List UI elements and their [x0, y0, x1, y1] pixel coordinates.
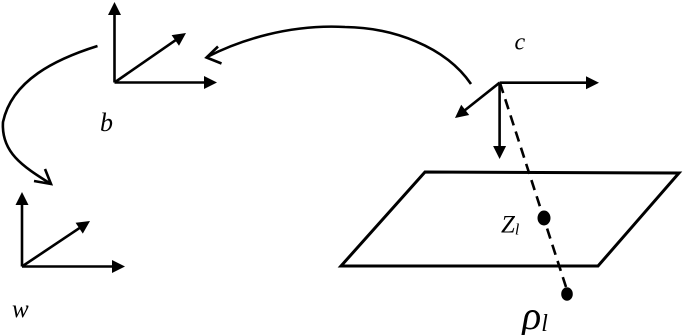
frame c axis down [493, 83, 506, 159]
svg-text:ρl: ρl [520, 293, 548, 335]
svg-text:w: w [12, 296, 29, 323]
dashed ray from c through plane [500, 83, 566, 287]
point rho_l dot [561, 287, 573, 301]
frame w axis x (right) [22, 260, 125, 273]
plane (parallelogram) [341, 172, 679, 266]
svg-text:c: c [515, 30, 526, 56]
frame w axis diagonal [22, 221, 90, 267]
frame b axis y (up) [108, 2, 121, 83]
frame c axis down-left [455, 83, 500, 118]
point Z_l dot [538, 211, 551, 226]
curved arrow b to w [3, 46, 98, 184]
svg-text:Zl: Zl [501, 212, 520, 239]
frame c axis x (right) [500, 76, 599, 89]
svg-text:b: b [100, 108, 113, 137]
frame b axis x (right) [115, 76, 218, 89]
frame w axis y (up) [16, 192, 29, 267]
curved arrow c to b [207, 27, 472, 84]
frame b axis diagonal [115, 33, 187, 83]
